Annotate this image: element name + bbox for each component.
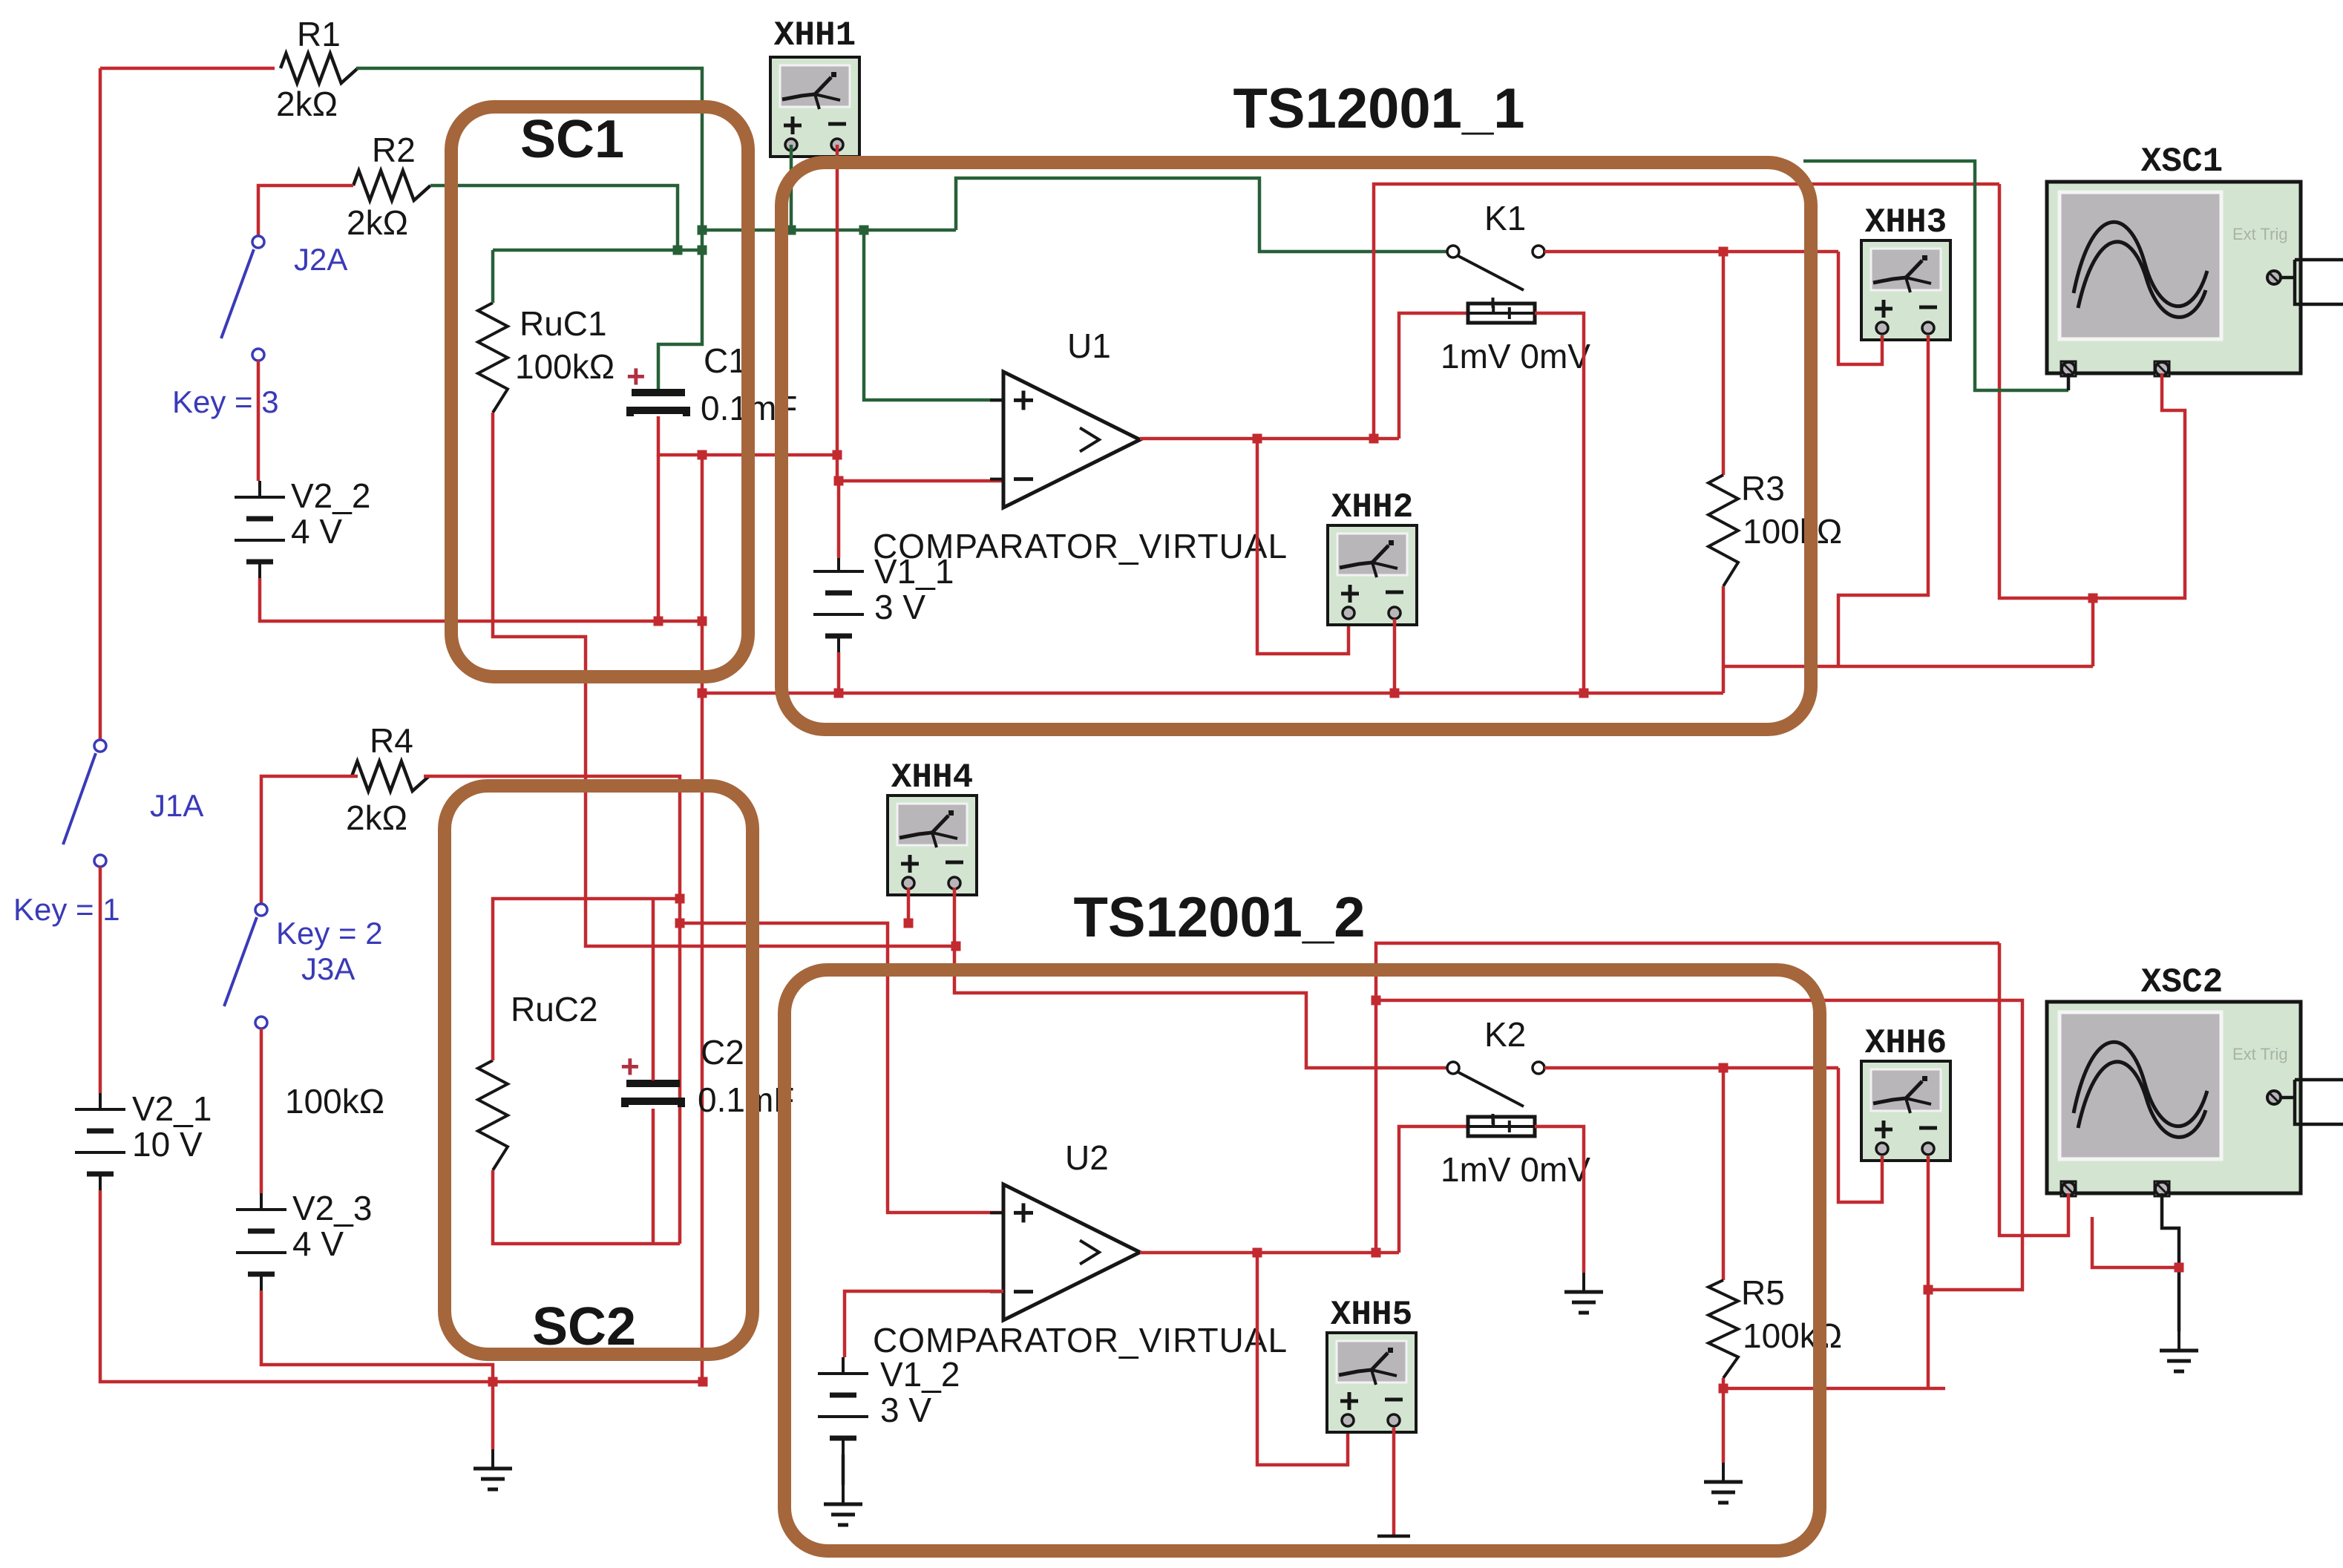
wire R4 left to J3A [261, 776, 358, 904]
svg-text:Key = 2: Key = 2 [276, 916, 383, 951]
ground SC2 left [473, 1449, 512, 1489]
svg-text:R3: R3 [1741, 469, 1785, 508]
multimeter XHH6 [1861, 1061, 1950, 1161]
region box TS12001_2 [784, 970, 1820, 1551]
wire XHH5 minus down [1392, 1428, 1396, 1536]
wire R5 to ground [1722, 1388, 1726, 1463]
switch J2A [221, 236, 347, 361]
wire C1 bottom to V2_2 rail [657, 455, 661, 621]
wire R5 bottom [1722, 1378, 1726, 1388]
wire R5 top riser [1722, 1068, 1726, 1280]
wire fuse right down [1535, 313, 1584, 693]
wire XSC1 A stub [2067, 373, 2071, 390]
svg-text:R4: R4 [370, 721, 413, 760]
wire XSC1 B chain [2093, 373, 2185, 598]
wire output up to top rail [1374, 184, 1999, 439]
svg-text:Ext Trig: Ext Trig [2232, 225, 2288, 243]
wire fuse2 feed [1399, 1126, 1468, 1253]
switch K1 [1447, 199, 1544, 308]
node SC2 junctions [675, 894, 685, 928]
svg-text:100kΩ: 100kΩ [515, 347, 615, 386]
ground XSC2 [2160, 1331, 2198, 1371]
wire output to XHH5 plus [1257, 1253, 1348, 1465]
wire x2820 down [2091, 598, 2095, 666]
label Key = 3 [172, 384, 279, 419]
op-amp U2 [990, 1138, 1140, 1320]
svg-text:RuC2: RuC2 [511, 990, 598, 1029]
multimeter XHH4 [888, 796, 977, 895]
green bus y310 [700, 229, 956, 232]
label Key = 2 [276, 916, 383, 951]
ground V1_2 [824, 1485, 862, 1525]
svg-text:V2_2: V2_2 [291, 476, 370, 515]
ground R5 [1704, 1463, 1743, 1503]
multimeter XHH3 [1861, 240, 1950, 340]
resistor R2 [347, 131, 430, 242]
oscilloscope XSC1 [2047, 182, 2301, 376]
node XHH6 minus junction [1924, 1285, 1933, 1295]
wire U2 minus feed [845, 1291, 1003, 1357]
wire V2_3 bottom [261, 1290, 493, 1449]
label Key = 1 [13, 892, 120, 927]
wire V2_2 bottom rail [260, 578, 702, 621]
wire R3 top riser [1722, 252, 1726, 475]
label XHH4 [891, 758, 973, 797]
wire green to K1 [956, 178, 1447, 252]
svg-text:2kΩ: 2kΩ [346, 798, 407, 837]
wire C1 bottom [658, 416, 839, 455]
svg-text:XHH1: XHH1 [774, 16, 856, 55]
svg-text:1mV 0mV: 1mV 0mV [1441, 337, 1590, 375]
battery V1_1 [813, 552, 954, 652]
wire output to fuse left [1399, 313, 1468, 439]
resistor R1 [276, 15, 358, 123]
svg-text:2kΩ: 2kΩ [347, 203, 408, 242]
region box SC2 [445, 786, 753, 1354]
svg-text:R2: R2 [372, 131, 416, 169]
label XHH3 [1865, 203, 1947, 242]
wire RuC2 bottom rail [493, 1170, 680, 1244]
node C1 rail junctions [654, 450, 707, 626]
wire TS1 bottom rail [702, 692, 1723, 695]
svg-text:R5: R5 [1741, 1273, 1785, 1312]
svg-text:SC2: SC2 [532, 1297, 636, 1357]
wire J1A to V2_1 [99, 867, 102, 1093]
svg-text:1mV 0mV: 1mV 0mV [1441, 1150, 1590, 1189]
svg-text:V2_1: V2_1 [132, 1089, 212, 1128]
capacitor C2 [625, 1033, 794, 1119]
svg-text:XHH3: XHH3 [1865, 203, 1947, 242]
wire x2694 to XSC2 A [1999, 943, 2068, 1236]
svg-text:100kΩ: 100kΩ [285, 1082, 384, 1121]
wire U1 minus feed [837, 455, 1003, 481]
svg-text:U1: U1 [1067, 327, 1111, 365]
wire XHH2 minus down [1393, 619, 1397, 693]
svg-text:XSC2: XSC2 [2141, 963, 2223, 1002]
fuse F2 [1441, 1117, 1590, 1189]
label XHH2 [1331, 488, 1413, 527]
node U2 output junctions [1253, 1248, 1381, 1258]
svg-text:U2: U2 [1065, 1138, 1109, 1177]
resistor R4 [346, 721, 429, 837]
svg-text:4 V: 4 V [291, 512, 342, 551]
svg-text:V2_3: V2_3 [292, 1189, 372, 1227]
node scope B junction [2088, 594, 2098, 603]
svg-text:3 V: 3 V [880, 1391, 931, 1429]
wire V1_1 bottom [837, 652, 841, 693]
resistor RuC1 [478, 303, 615, 413]
wire XSC1 right terminal lines [2281, 260, 2343, 304]
label COMPARATOR_VIRTUAL U1 [873, 527, 1288, 565]
wire green to XSC1 A [1803, 161, 2068, 390]
wire R1 to green node (green net) [356, 68, 702, 393]
wire XHH6 minus down [1927, 1156, 1930, 1388]
wire R4 right into SC2 [424, 776, 680, 1244]
label C2 plus [620, 1049, 640, 1085]
svg-text:TS12001_1: TS12001_1 [1233, 77, 1525, 140]
wire C2 bottom riser [652, 1109, 655, 1244]
multimeter XHH5 [1327, 1333, 1416, 1432]
wire XHH1 minus down [836, 145, 839, 455]
resistor R5 [1708, 1273, 1842, 1378]
wire R3 bottom [1722, 586, 1726, 693]
resistor RuC2 [285, 990, 598, 1170]
svg-text:C1: C1 [704, 341, 747, 380]
battery V2_3 [236, 1189, 372, 1290]
svg-text:3 V: 3 V [874, 588, 925, 626]
label TS12001_2 [1074, 886, 1366, 949]
node K2 R5 tap [1719, 1063, 1728, 1073]
wire U1 output rail [1140, 437, 1399, 441]
node XHH4 plus junction [904, 919, 961, 951]
wire J2A to V2_2 [257, 361, 260, 481]
label XHH1 [774, 16, 856, 55]
wire K2 to XHH6 plus [1838, 1068, 1882, 1202]
svg-text:J1A: J1A [150, 788, 203, 823]
node bottom rail junctions [488, 1377, 708, 1387]
node TS1 rail junctions [698, 689, 1589, 698]
wire R2 output green [430, 186, 678, 250]
label XSC1 [2141, 142, 2223, 181]
wire C2 top riser [652, 899, 655, 1080]
wire V2_1 top feed from R1 node [100, 67, 275, 70]
label XSC2 [2141, 963, 2223, 1002]
svg-text:K1: K1 [1484, 199, 1526, 237]
wire XHH5 minus end bar [1377, 1535, 1410, 1538]
svg-text:XHH4: XHH4 [891, 758, 973, 797]
svg-text:V1_2: V1_2 [880, 1355, 960, 1394]
resistor R3 [1708, 469, 1842, 586]
oscilloscope XSC2 [2047, 1002, 2301, 1196]
wire SC2 to U2 plus [680, 923, 1003, 1213]
svg-text:XHH2: XHH2 [1331, 488, 1413, 527]
svg-text:TS12001_2: TS12001_2 [1074, 886, 1366, 949]
wire U1 plus feed [864, 230, 1003, 400]
svg-text:J3A: J3A [301, 951, 355, 986]
node y1348 junction [1372, 996, 1381, 1006]
wire through vertical x946 [701, 455, 704, 1382]
svg-text:RuC1: RuC1 [520, 304, 607, 343]
svg-text:Key = 1: Key = 1 [13, 892, 120, 927]
wire RuC1 bottom chain to K2 net [493, 413, 956, 946]
label COMPARATOR_VIRTUAL U2 [873, 1321, 1288, 1359]
wire left vertical to J1A [99, 68, 102, 740]
svg-text:100kΩ: 100kΩ [1743, 512, 1842, 551]
green bus y337 [493, 249, 702, 252]
wire R5 rail right [1723, 1387, 1945, 1391]
wire U2 output rail [1140, 1251, 1399, 1255]
wire K1 right [1544, 250, 1838, 254]
battery V2_1 [75, 1089, 212, 1190]
wire XSC2 B chain [2162, 1193, 2179, 1331]
svg-text:Ext Trig: Ext Trig [2232, 1045, 2288, 1063]
wire top rail to scope B chain [1999, 184, 2093, 598]
svg-text:XSC1: XSC1 [2141, 142, 2223, 181]
wire XSC2 B red link [2092, 1217, 2179, 1267]
battery V1_2 [818, 1355, 960, 1454]
wire output to XHH2 plus [1257, 439, 1349, 654]
svg-text:100kΩ: 100kΩ [1743, 1316, 1842, 1355]
svg-text:Key = 3: Key = 3 [172, 384, 279, 419]
svg-text:4 V: 4 V [292, 1224, 344, 1263]
wire x1854 up [1376, 943, 1999, 1253]
switch K2 [1447, 1015, 1544, 1124]
wire V1_1 top [837, 481, 841, 558]
node output junctions [1253, 434, 1379, 444]
node U1 minus junction [833, 450, 844, 486]
label TS12001_1 [1233, 77, 1525, 140]
svg-text:R1: R1 [297, 15, 341, 53]
region box SC1 [451, 107, 748, 677]
wire y1348 rail [1376, 1000, 2022, 1290]
wire J3A to V2_3 [260, 1029, 263, 1193]
switch J1A [63, 740, 203, 867]
svg-text:XHH6: XHH6 [1865, 1024, 1947, 1063]
op-amp U1 [990, 327, 1140, 508]
label C1 plus [626, 358, 646, 395]
ground fuse2 [1564, 1273, 1603, 1313]
wire XSC2 right terminal lines [2281, 1080, 2343, 1124]
label XHH5 [1331, 1296, 1412, 1334]
wire K1 to XHH3 plus [1838, 252, 1882, 364]
label XHH6 [1865, 1024, 1947, 1063]
label SC2 [532, 1297, 636, 1357]
label SC1 [520, 110, 624, 169]
wire V2_1 bottom rail [100, 1190, 703, 1382]
node R5 bottom junction [1719, 1384, 1728, 1394]
wire K2 right [1544, 1066, 1838, 1070]
fuse F1 [1441, 304, 1590, 375]
region box TS12001_1 [781, 163, 1811, 729]
wire R3 to right rail [1723, 665, 2093, 669]
svg-text:2kΩ: 2kΩ [276, 85, 338, 123]
switch J3A [224, 904, 355, 1029]
svg-text:+: + [626, 358, 646, 395]
svg-text:V1_1: V1_1 [874, 552, 954, 591]
wire XHH4 plus down [907, 888, 911, 923]
svg-text:K2: K2 [1484, 1015, 1526, 1054]
multimeter XHH1 [770, 57, 859, 157]
svg-text:C2: C2 [701, 1033, 744, 1072]
wire XHH3 minus down [1838, 335, 1928, 666]
svg-text:XHH5: XHH5 [1331, 1296, 1412, 1334]
node K1 R3 tap [1719, 247, 1728, 257]
battery V2_2 [235, 476, 370, 578]
svg-text:+: + [620, 1049, 640, 1085]
wire fuse2 right to ground [1535, 1126, 1584, 1273]
wire RuC1 top riser [491, 250, 495, 303]
wire R2 left lead [258, 186, 353, 236]
svg-text:J2A: J2A [294, 242, 347, 277]
wire V1_2 to ground [842, 1454, 845, 1485]
wire XHH1 plus down [790, 145, 793, 230]
wire RuC2 top rail [493, 899, 680, 1060]
wire XHH4 minus to K2 [954, 888, 1447, 1068]
multimeter XHH2 [1328, 525, 1417, 625]
svg-text:SC1: SC1 [520, 110, 624, 169]
capacitor C1 [630, 341, 797, 427]
svg-text:COMPARATOR_VIRTUAL: COMPARATOR_VIRTUAL [873, 1321, 1288, 1359]
svg-text:10 V: 10 V [132, 1125, 203, 1164]
node XSC2 B junction [2175, 1263, 2184, 1273]
node green junctions [673, 226, 869, 255]
